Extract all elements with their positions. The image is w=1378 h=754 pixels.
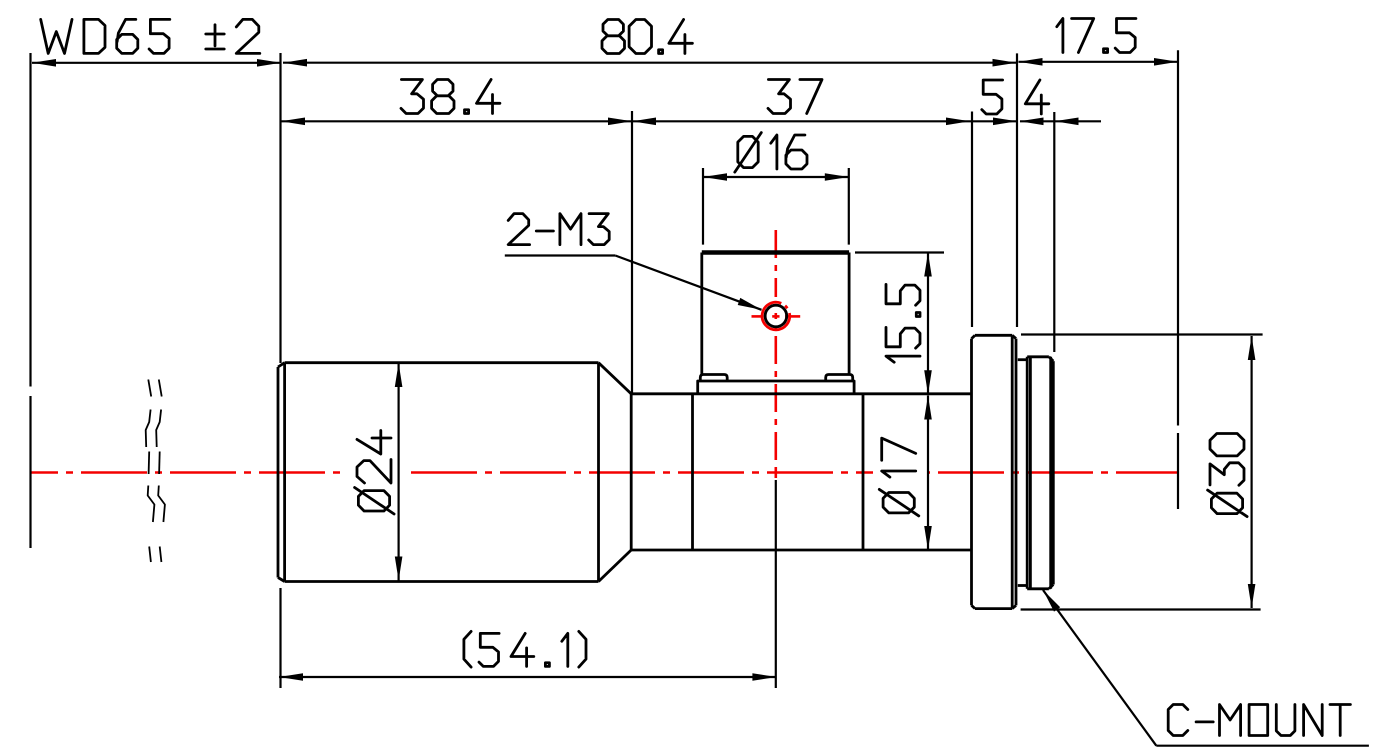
dimension line 38.4 / 37 / 5 / 4 (281, 118, 1101, 126)
extension line 5/4 (flange rear face) (1016, 53, 1018, 327)
extension line 38.4/37 (631, 111, 633, 394)
leader C-MOUNT (1043, 590, 1369, 746)
M3 hole circle (765, 305, 787, 327)
dimension 17.5 (1019, 58, 1179, 66)
break symbol squiggle (146, 380, 165, 563)
red hole horizontal centerline (752, 315, 801, 318)
label C-MOUNT (1168, 705, 1350, 736)
extension line 15.5 top (855, 251, 944, 253)
label 38.4 (401, 80, 500, 114)
red hole vertical centerline (774, 230, 777, 478)
dimension o16 (703, 173, 849, 181)
conical transition (599, 363, 632, 582)
mid barrel o17 (631, 394, 971, 550)
label (54.1) (464, 631, 586, 667)
dimension 15.5 (924, 253, 932, 395)
lens front barrel o24 (278, 363, 599, 582)
dimension 80.4 (283, 59, 1017, 67)
clamp block base plate (698, 381, 854, 394)
label o30 (rotated) (1208, 433, 1248, 516)
extension line 4 right (1053, 112, 1055, 352)
dimension o17 (924, 396, 932, 551)
label 15.5 (rotated) (886, 284, 920, 362)
red optical axis centerline (31, 471, 1179, 474)
extension line front face (279, 53, 281, 688)
dimension (54.1) (279, 673, 776, 681)
o30 top reference line (1021, 333, 1263, 335)
leader 2-M3 (505, 256, 762, 310)
extension line 37/5 (971, 112, 973, 328)
label 37 (768, 80, 822, 114)
red thread arc of M3 hole (762, 302, 790, 330)
label 2-M3 (508, 214, 609, 245)
flange o30 (972, 335, 1017, 608)
label 17.5 (1057, 19, 1136, 53)
label 80.4 (602, 20, 692, 54)
dimension o30 (1248, 336, 1256, 608)
clamp block o16 (702, 253, 849, 376)
C-mount thread (1018, 357, 1054, 589)
o30 bottom reference line (1021, 608, 1261, 610)
dimension WD65 +-2 (32, 59, 281, 67)
dimension o24 (395, 363, 403, 581)
extension line left (WD) (29, 53, 31, 548)
clamp block right tab (826, 375, 853, 382)
label 4 (1025, 80, 1049, 114)
extension lines o16 (703, 168, 849, 245)
label WD65 +-2 (41, 19, 260, 53)
extension line 54.1 right (hole axis) (775, 480, 777, 688)
clamp block left tab (700, 375, 727, 382)
label o16 (735, 133, 807, 173)
label o17 (rotated) (879, 438, 919, 516)
extension line 17.5 right (1177, 50, 1179, 509)
label o24 (rotated) (355, 431, 395, 515)
label 5 (982, 80, 1003, 114)
